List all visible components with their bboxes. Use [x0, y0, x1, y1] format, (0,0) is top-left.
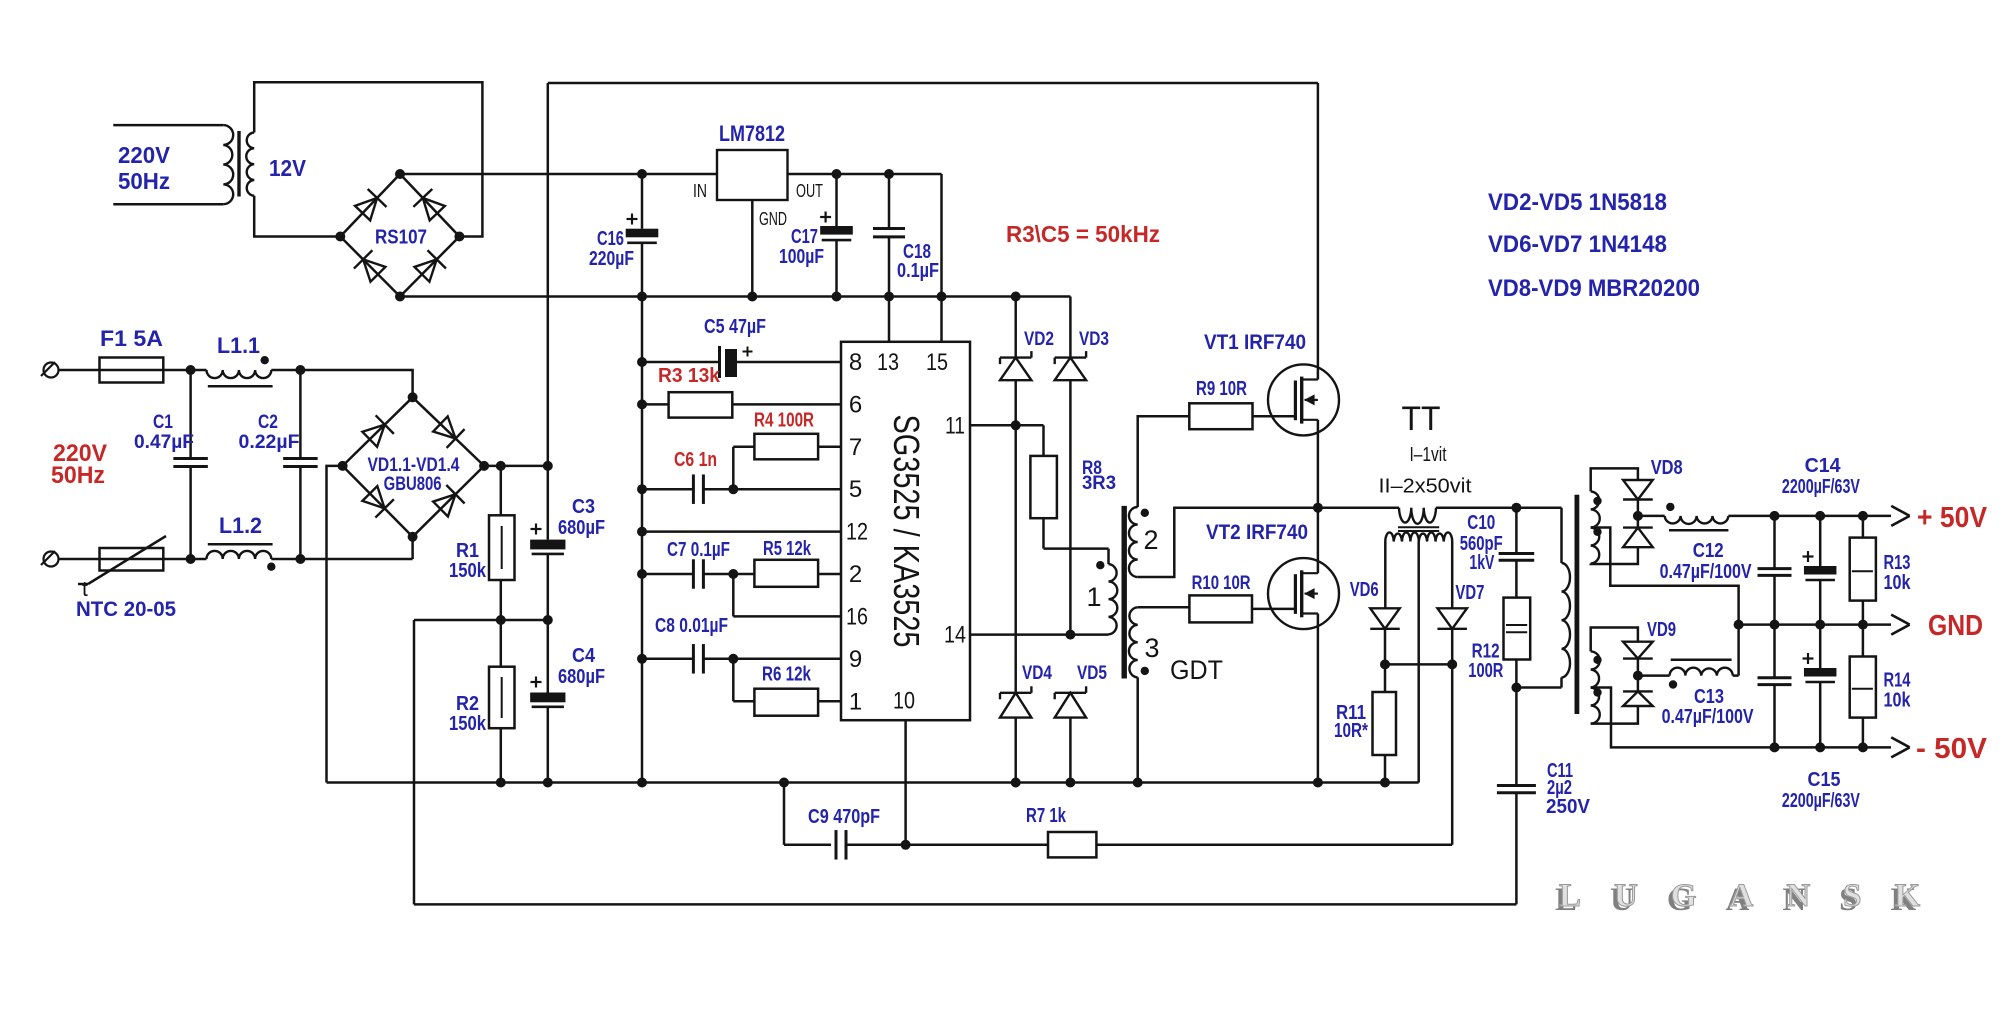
svg-text:C7 0.1µF: C7 0.1µF: [667, 539, 730, 561]
wire VT2 drain: [1317, 508, 1320, 574]
node VD1 corners: [408, 392, 418, 402]
svg-text:VD8-VD9 MBR20200: VD8-VD9 MBR20200: [1488, 275, 1700, 302]
capacitor C12 0.47uF: [1773, 516, 1776, 569]
resistor R9 10R: [1189, 403, 1252, 429]
inductor L1.1: [207, 370, 272, 378]
svg-text:50Hz: 50Hz: [118, 168, 170, 194]
capacitor C9 470pF: [835, 830, 838, 860]
svg-text:C6 1n: C6 1n: [674, 449, 717, 471]
svg-text:L1.1: L1.1: [217, 333, 260, 358]
svg-text:R1: R1: [456, 540, 479, 562]
svg-text:F1 5A: F1 5A: [100, 326, 163, 351]
capacitor C8 0.01uF: [642, 658, 693, 661]
svg-text:6: 6: [849, 392, 862, 419]
wire C9 ground drop: [783, 783, 786, 845]
transformer T-aux secondary winding 12V: [246, 133, 254, 196]
node C8 right junction: [728, 654, 738, 664]
wire +50V rail: [1728, 515, 1891, 518]
bridge rectifier RS107 outline: [340, 174, 459, 297]
node VD4 anode ground: [1011, 778, 1021, 788]
diode RS107 top-right arm: [413, 189, 446, 222]
capacitor C16 220uF: [641, 174, 644, 229]
svg-text:680µF: 680µF: [558, 517, 605, 539]
node C16 top: [637, 169, 647, 179]
wire control ground bus x642: [641, 297, 644, 783]
node -50V junctions: [1770, 742, 1780, 752]
svg-text:10: 10: [893, 688, 915, 715]
wire sec-bot to VD9 anode1: [1591, 628, 1638, 652]
svg-text:VD6: VD6: [1350, 579, 1379, 601]
node divider mid R1: [496, 615, 506, 625]
svg-text:R14: R14: [1884, 670, 1912, 692]
svg-text:50Hz: 50Hz: [51, 462, 105, 489]
node VD6 cathode: [1380, 659, 1390, 669]
inductor L1.2 core line: [208, 543, 273, 546]
svg-text:I–1vit: I–1vit: [1410, 444, 1447, 466]
diode VD8 lower: [1623, 528, 1653, 548]
capacitor C14 2200uF: [1819, 516, 1822, 566]
wire VT1 source to node: [1317, 420, 1320, 508]
diode VD5: [1055, 693, 1086, 718]
svg-text:VD8: VD8: [1651, 457, 1683, 479]
node pin10 C9 junction: [901, 840, 911, 850]
svg-text:10k: 10k: [1884, 572, 1912, 594]
node C8 left: [637, 654, 647, 664]
resistor R13 10k: [1862, 516, 1865, 538]
svg-text:VT1 IRF740: VT1 IRF740: [1204, 331, 1306, 354]
svg-text:R7 1k: R7 1k: [1026, 805, 1067, 827]
diode VD3: [1069, 297, 1072, 358]
node x642 ground bus bottom: [637, 778, 647, 788]
svg-text:7: 7: [849, 434, 862, 461]
svg-text:11: 11: [945, 413, 965, 440]
svg-text:RS107: RS107: [375, 227, 427, 249]
arrow -50V: [1891, 737, 1910, 747]
transformer T-aux core: [237, 131, 240, 197]
svg-text:220V: 220V: [118, 142, 171, 168]
bridge rectifier VD1.1-VD1.4 outline: [343, 397, 485, 536]
svg-text:C4: C4: [572, 645, 596, 667]
terminal mains L: [44, 363, 59, 378]
svg-text:R5 12k: R5 12k: [763, 538, 812, 560]
inductor output top: [1638, 515, 1665, 518]
resistor R2 150k: [500, 620, 503, 667]
phase dot GDT winding3: [1141, 667, 1149, 675]
capacitor C10 560pF: [1515, 508, 1518, 554]
svg-text:680µF: 680µF: [558, 666, 605, 688]
wire VD7 to R7 feedback: [1451, 664, 1454, 844]
svg-text:13: 13: [877, 349, 899, 376]
node VD9 cathode junction: [1633, 671, 1643, 681]
svg-text:C12: C12: [1693, 540, 1724, 562]
wire pin14 output: [970, 633, 1070, 636]
svg-text:1: 1: [849, 689, 862, 716]
svg-text:VD3: VD3: [1079, 329, 1109, 350]
svg-text:100µF: 100µF: [779, 246, 824, 268]
svg-text:C14: C14: [1805, 455, 1842, 477]
svg-text:VD6-VD7 1N4148: VD6-VD7 1N4148: [1488, 231, 1667, 258]
svg-text:16: 16: [846, 604, 868, 631]
svg-text:R9 10R: R9 10R: [1196, 378, 1247, 400]
node +12V rail junctions: [637, 292, 647, 302]
transformer T-aux primary winding: [223, 125, 233, 204]
svg-text:LUGANSK: LUGANSK: [1559, 878, 1953, 914]
diode RS107 bottom-right arm: [413, 250, 446, 283]
wire pin12 lead: [642, 530, 841, 533]
IC U1 SG3525/KA3525 body: [841, 342, 970, 720]
resistor R3 13k: [642, 403, 669, 406]
capacitor C1 0.47uF: [189, 370, 192, 459]
resistor R6 12k: [754, 689, 818, 716]
node C7 left: [637, 569, 647, 579]
resistor R14 10k: [1862, 625, 1865, 657]
phase dot GDT winding2: [1141, 509, 1149, 517]
svg-text:C16: C16: [597, 228, 624, 250]
wire primary ground bus: [327, 781, 1419, 784]
svg-text:0.47µF: 0.47µF: [134, 432, 194, 453]
svg-text:- 50V: - 50V: [1916, 733, 1988, 765]
svg-text:15: 15: [926, 349, 948, 376]
wire to VD1 bridge top: [300, 370, 412, 397]
svg-text:0.47µF/100V: 0.47µF/100V: [1662, 706, 1755, 728]
node C7 right junction: [728, 569, 738, 579]
svg-text:2200µF/63V: 2200µF/63V: [1782, 476, 1860, 498]
diode VD1.3 bottom-left arm: [361, 484, 394, 517]
node snubber bottom: [1511, 683, 1521, 693]
svg-text:0.22µF: 0.22µF: [239, 432, 300, 453]
svg-text:C2: C2: [258, 412, 278, 433]
node R3 left: [637, 399, 647, 409]
svg-text:9: 9: [849, 646, 862, 673]
capacitor C15 2200uF: [1819, 625, 1822, 668]
svg-text:GND: GND: [1928, 610, 1983, 642]
node R2 bottom: [496, 778, 506, 788]
wire VD1 plus rail: [484, 465, 548, 468]
svg-text:12: 12: [846, 519, 868, 546]
diode VD9 upper: [1623, 642, 1653, 659]
capacitor C6 1n: [642, 488, 693, 491]
svg-text:10k: 10k: [1884, 690, 1912, 712]
svg-text:+ 50V: + 50V: [1917, 502, 1988, 534]
diode VD6: [1370, 608, 1400, 629]
capacitor C13 0.47uF: [1773, 625, 1776, 678]
node divider mid C3: [543, 615, 553, 625]
svg-text:1: 1: [1086, 582, 1101, 612]
capacitor C4 680uF: [547, 620, 550, 693]
capacitor C7 0.1uF: [642, 573, 693, 576]
capacitor C2 0.22uF: [299, 370, 302, 459]
wire sec-bot center tap: [1591, 688, 1891, 748]
wire aux mains primary leads: [113, 124, 223, 127]
svg-text:R6 12k: R6 12k: [762, 664, 812, 686]
capacitor C18 0.1uF: [888, 174, 891, 228]
wire pin16 jog: [732, 574, 735, 616]
svg-text:II–2x50vit: II–2x50vit: [1379, 476, 1472, 498]
svg-text:VD1.1-VD1.4: VD1.1-VD1.4: [368, 455, 460, 476]
wire LM7812 OUT rail: [788, 173, 942, 176]
wire pin10 lead: [904, 720, 907, 845]
node +50V junctions: [1770, 511, 1780, 521]
node C5 left: [637, 357, 647, 367]
wire VD6-VD7 cathode bar: [1385, 663, 1452, 666]
wire C11 return line: [414, 903, 1516, 906]
node VD7 cathode: [1447, 659, 1457, 669]
svg-text:250V: 250V: [1546, 796, 1591, 818]
transformer main primary: [1562, 563, 1571, 677]
node pin11 VD2 junction: [1011, 420, 1021, 430]
inductor L1.2: [207, 551, 272, 559]
transformer TT core: [1398, 526, 1439, 528]
svg-text:IN: IN: [693, 181, 707, 201]
svg-text:5: 5: [849, 476, 862, 503]
wire divider mid rail: [414, 619, 548, 622]
transformer main core: [1575, 495, 1580, 714]
capacitor C3 680uF: [547, 466, 550, 540]
node pin14 junction: [1065, 630, 1075, 640]
wire VT2 source: [1317, 614, 1320, 783]
wire pin11 to R8: [1042, 425, 1045, 456]
node snubber top: [1511, 503, 1521, 513]
phase dot output bottom inductor: [1669, 680, 1677, 688]
resistor R8 3R3: [1030, 456, 1057, 518]
node C6 left: [637, 484, 647, 494]
svg-text:TT: TT: [1402, 400, 1441, 438]
svg-text:SG3525 / KA3525: SG3525 / KA3525: [886, 415, 927, 648]
svg-text:R3\C5 = 50kHz: R3\C5 = 50kHz: [1006, 221, 1160, 247]
phase dot L1.2: [267, 563, 275, 571]
node VD5 anode ground: [1065, 778, 1075, 788]
svg-text:C3: C3: [572, 496, 595, 518]
wire half-bridge mid to TT: [1318, 506, 1399, 509]
svg-text:C10: C10: [1467, 512, 1495, 534]
svg-text:C15: C15: [1808, 769, 1841, 791]
node NTC-C1 junction: [186, 554, 196, 564]
fuse F1 5A: [100, 369, 191, 372]
resistor R1 150k: [500, 466, 503, 515]
svg-text:2: 2: [849, 561, 862, 588]
svg-text:R10 10R: R10 10R: [1192, 573, 1251, 594]
phase dot L1.1: [261, 356, 269, 364]
resistor R5 12k: [754, 560, 818, 587]
transformer GDT winding 1: [1109, 564, 1118, 634]
wire VT1 drain: [1317, 83, 1320, 380]
transformer TT primary I-1vit: [1399, 508, 1436, 524]
wire pin15 supply lead: [940, 297, 943, 342]
node half-bridge mid: [1313, 503, 1323, 513]
svg-text:C8 0.01µF: C8 0.01µF: [655, 615, 728, 637]
node C6 right junction: [728, 484, 738, 494]
svg-text:C13: C13: [1694, 686, 1724, 708]
svg-text:3: 3: [1144, 633, 1159, 663]
transformer GDT winding 2: [1129, 507, 1138, 577]
wire TT secondary center tap: [1417, 542, 1420, 783]
wire TT secondary left lead: [1384, 542, 1387, 609]
svg-text:R3 13k: R3 13k: [658, 365, 721, 387]
svg-text:VD2-VD5 1N5818: VD2-VD5 1N5818: [1488, 189, 1667, 216]
svg-text:1kV: 1kV: [1469, 552, 1494, 574]
resistor R4 100R: [733, 446, 754, 449]
transformer GDT core: [1122, 506, 1127, 679]
node C4 bottom: [543, 778, 553, 788]
node VD8 cathode junction: [1633, 511, 1643, 521]
svg-text:2200µF/63V: 2200µF/63V: [1782, 790, 1860, 812]
wire pin13 supply lead: [888, 297, 891, 342]
node C18 top: [884, 169, 894, 179]
svg-text:VT2 IRF740: VT2 IRF740: [1206, 521, 1308, 544]
wire TT secondary right lead: [1451, 542, 1454, 609]
wire GND rail: [1739, 623, 1891, 626]
svg-text:C1: C1: [153, 412, 173, 433]
node GDT winding3 ground: [1133, 778, 1143, 788]
svg-text:150k: 150k: [449, 713, 487, 735]
diode VD7: [1437, 608, 1467, 629]
svg-text:12V: 12V: [269, 155, 307, 181]
svg-text:R4 100R: R4 100R: [754, 410, 814, 432]
wire VD9 output to GND rail: [1737, 625, 1740, 676]
wire snubber to primary bottom: [1516, 686, 1561, 689]
capacitor C5 47uF softstart: [642, 361, 720, 364]
svg-text:VD4: VD4: [1022, 663, 1052, 684]
wire TT primary to snubber node: [1436, 506, 1562, 509]
node R1 top: [496, 461, 506, 471]
diode VD1.2 top-right arm: [431, 415, 464, 448]
inductor L1.1 core line: [208, 385, 273, 388]
svg-text:R2: R2: [456, 693, 479, 715]
node C9 ground: [779, 778, 789, 788]
thermistor NTC 20-05: [100, 558, 191, 561]
svg-text:NTC 20-05: NTC 20-05: [76, 598, 176, 621]
resistor R12 100R: [1504, 598, 1531, 660]
svg-text:VD7: VD7: [1455, 582, 1484, 604]
wire VD9 anode2 to sec bottom: [1591, 706, 1638, 724]
transformer TT secondary II-2x50vit: [1385, 532, 1452, 541]
wire +12V rail: [400, 295, 1070, 298]
wire VD8 anode2 to sec bottom: [1591, 547, 1638, 564]
svg-text:GND: GND: [759, 209, 787, 229]
inductor output bottom: [1638, 674, 1670, 677]
diode VD8 upper: [1623, 480, 1653, 500]
svg-text:0.1µF: 0.1µF: [897, 260, 939, 282]
svg-text:10R*: 10R*: [1334, 720, 1368, 742]
svg-text:OUT: OUT: [796, 181, 823, 201]
svg-text:8: 8: [849, 349, 862, 376]
node VT2 source ground: [1313, 778, 1323, 788]
svg-text:3R3: 3R3: [1082, 473, 1116, 494]
diode RS107 top-left arm: [353, 189, 386, 222]
wire raw 12V rail: [400, 173, 717, 176]
svg-text:220µF: 220µF: [589, 248, 634, 270]
phase dots secondary top: [1593, 497, 1601, 505]
wire R4 to pin5 row: [732, 447, 735, 489]
wire pin11 output: [970, 424, 1044, 427]
diode VD9 lower: [1623, 691, 1653, 706]
node R11 ground: [1380, 778, 1390, 788]
capacitor C17 100uF: [835, 174, 838, 226]
wire aux secondary top loop: [254, 82, 482, 236]
wire LM7812 GND lead: [751, 200, 754, 297]
transformer main secondary top: [1591, 491, 1600, 563]
transistor VT2 IRF740: [1268, 558, 1339, 629]
node C17 top: [832, 169, 842, 179]
node L1.2-C2 junction: [295, 554, 305, 564]
wire sec-top to VD8 anode1: [1591, 468, 1638, 491]
svg-text:VD2: VD2: [1024, 329, 1054, 350]
diode VD4: [1014, 425, 1017, 693]
transistor VT1 IRF740: [1268, 364, 1339, 435]
svg-text:C17: C17: [791, 226, 818, 248]
transformer main secondary bottom: [1591, 651, 1600, 723]
phase dot GDT winding1: [1096, 561, 1104, 569]
diode VD1.1 top-left arm: [361, 415, 394, 448]
svg-text:R13: R13: [1884, 552, 1911, 574]
node pin12 left: [637, 527, 647, 537]
svg-text:0.47µF/100V: 0.47µF/100V: [1660, 561, 1753, 583]
svg-text:14: 14: [944, 622, 966, 649]
node HV bus C3 top: [543, 461, 553, 471]
wire aux secondary bottom: [254, 196, 340, 237]
transformer GDT winding 3: [1129, 607, 1138, 677]
terminal mains N: [44, 552, 59, 567]
wire R8 to GDT winding1 top: [1042, 518, 1045, 548]
svg-text:150k: 150k: [449, 560, 487, 582]
resistor R10 10R: [1189, 595, 1252, 622]
svg-text:VD5: VD5: [1077, 663, 1107, 684]
svg-text:C5 47µF: C5 47µF: [704, 316, 766, 338]
svg-text:C9 470pF: C9 470pF: [808, 806, 880, 828]
node RS107 corners: [395, 169, 405, 179]
node GND junctions: [1734, 620, 1744, 630]
wire VD1 minus to ground bus: [327, 466, 343, 783]
svg-text:GBU806: GBU806: [384, 474, 442, 495]
diode VD1.4 bottom-right arm: [431, 485, 464, 518]
svg-text:2: 2: [1143, 525, 1158, 555]
wire sec-top center tap: [1591, 528, 1739, 625]
node L1.1-C2 junction: [295, 365, 305, 375]
phase dot output top inductor: [1666, 503, 1674, 511]
svg-text:GDT: GDT: [1170, 655, 1223, 685]
resistor R11 10R*: [1384, 664, 1387, 692]
svg-text:L1.2: L1.2: [219, 513, 262, 538]
capacitor C11 2u2 250V: [1515, 688, 1518, 786]
resistor R7 1k: [906, 844, 1048, 847]
svg-text:100R: 100R: [1468, 660, 1503, 682]
wire to VD1 bridge bottom: [300, 558, 412, 561]
wire divider feedback vertical: [413, 620, 416, 904]
svg-text:VD9: VD9: [1647, 619, 1676, 641]
diode RS107 bottom-left arm: [354, 250, 387, 283]
wire HV+ bus vertical: [547, 83, 550, 466]
regulator U2 LM7812: [717, 150, 788, 200]
node F1-C1 junction: [186, 365, 196, 375]
phase dots secondary bottom: [1593, 656, 1601, 664]
wire pin1 jog: [732, 659, 735, 701]
wire HV+ top rail: [548, 82, 1318, 85]
diode VD2: [1014, 297, 1017, 358]
svg-text:LM7812: LM7812: [719, 121, 785, 146]
